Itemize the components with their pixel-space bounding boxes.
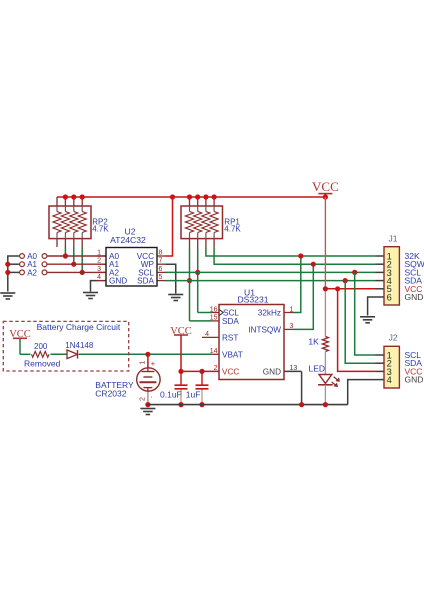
svg-text:6: 6 [159,266,163,273]
svg-text:A2: A2 [27,268,37,277]
svg-text:GND: GND [405,292,424,302]
svg-text:3: 3 [290,323,294,330]
svg-text:2: 2 [97,258,101,265]
svg-text:0.1uF: 0.1uF [160,389,182,399]
svg-text:1: 1 [140,361,147,365]
svg-text:AT24C32: AT24C32 [110,235,146,245]
svg-text:GND: GND [263,367,281,376]
svg-text:3: 3 [97,266,101,273]
svg-text:GND: GND [405,375,424,385]
svg-text:4: 4 [205,331,209,338]
svg-text:8: 8 [159,250,163,257]
svg-text:32kHz: 32kHz [258,309,281,318]
svg-text:VCC: VCC [9,329,31,340]
svg-text:7: 7 [159,258,163,265]
svg-text:4: 4 [97,274,101,281]
svg-text:Removed: Removed [24,359,61,369]
svg-text:13: 13 [290,365,298,372]
svg-text:VCC: VCC [222,367,239,376]
svg-text:200: 200 [34,342,48,351]
svg-text:VCC: VCC [312,179,339,194]
svg-text:DS3231: DS3231 [237,295,268,305]
svg-text:4.7K: 4.7K [224,225,241,234]
svg-text:+: + [151,359,156,368]
svg-text:Battery Charge Circuit: Battery Charge Circuit [37,322,121,332]
svg-text:INTSQW: INTSQW [248,325,281,334]
svg-text:1N4148: 1N4148 [65,341,94,350]
svg-text:15: 15 [210,315,218,322]
svg-text:SDA: SDA [137,277,154,286]
svg-text:14: 14 [210,348,218,355]
svg-text:16: 16 [210,306,218,313]
svg-text:VBAT: VBAT [222,350,243,359]
svg-text:2: 2 [214,365,218,372]
svg-text:6: 6 [387,292,392,302]
svg-text:4.7K: 4.7K [92,225,109,234]
svg-text:4: 4 [387,375,392,385]
svg-text:1uF: 1uF [186,389,201,399]
svg-text:RST: RST [222,333,238,342]
svg-text:CR2032: CR2032 [95,389,126,399]
svg-text:5: 5 [159,274,163,281]
svg-text:2: 2 [140,397,147,401]
svg-text:J1: J1 [389,234,398,244]
svg-text:J2: J2 [389,333,398,343]
svg-text:GND: GND [109,277,127,286]
svg-text:LED: LED [309,363,326,373]
svg-text:SDA: SDA [222,317,239,326]
svg-text:1: 1 [97,250,101,257]
svg-text:1K: 1K [308,337,319,347]
svg-text:.: . [150,391,152,400]
svg-text:1: 1 [290,306,294,313]
